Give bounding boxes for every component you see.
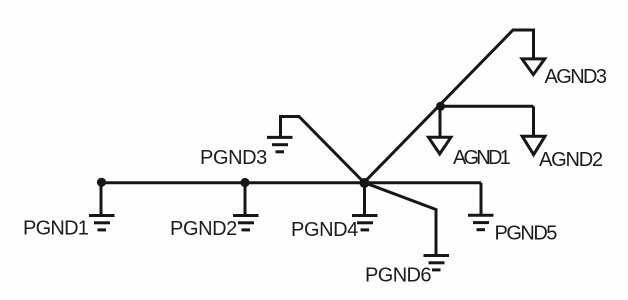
node central junction [360,178,370,188]
ground AGND3 triangle [522,59,545,75]
wire big diagonal node to AGND3 peak [364,30,534,183]
wire PGND4 stub [363,183,366,216]
wire AGND1 stub [439,106,442,136]
ground PGND6 [424,256,450,270]
svg-text:AGND1: AGND1 [453,147,511,169]
wire PGND2 stub [244,183,247,215]
wire PGND6 branch [364,183,436,256]
wire main horizontal bus [100,181,482,184]
svg-text:PGND5: PGND5 [495,223,558,245]
ground PGND3 [267,137,293,151]
svg-text:AGND2: AGND2 [539,149,603,171]
wire AGND2 stub [532,106,535,136]
ground AGND2 triangle [522,136,545,154]
ground PGND5 [468,215,494,229]
ground AGND1 triangle [429,137,451,154]
node junction PGND2 [240,178,249,187]
wire PGND5 stub [480,183,483,215]
svg-text:PGND1: PGND1 [23,218,89,240]
svg-text:AGND3: AGND3 [545,66,607,88]
svg-text:PGND2: PGND2 [170,218,237,240]
ground PGND4 [352,216,378,230]
wire AGND branch horizontal [440,105,534,108]
node junction PGND1 [97,178,106,187]
node junction AGND branch [436,102,445,111]
svg-text:PGND6: PGND6 [365,265,431,287]
svg-text:PGND4: PGND4 [291,219,358,241]
svg-text:PGND3: PGND3 [200,147,267,169]
wire PGND3 branch [281,117,365,183]
ground PGND2 [233,216,259,230]
ground PGND1 [89,216,115,230]
wire PGND1 stub [100,183,103,215]
